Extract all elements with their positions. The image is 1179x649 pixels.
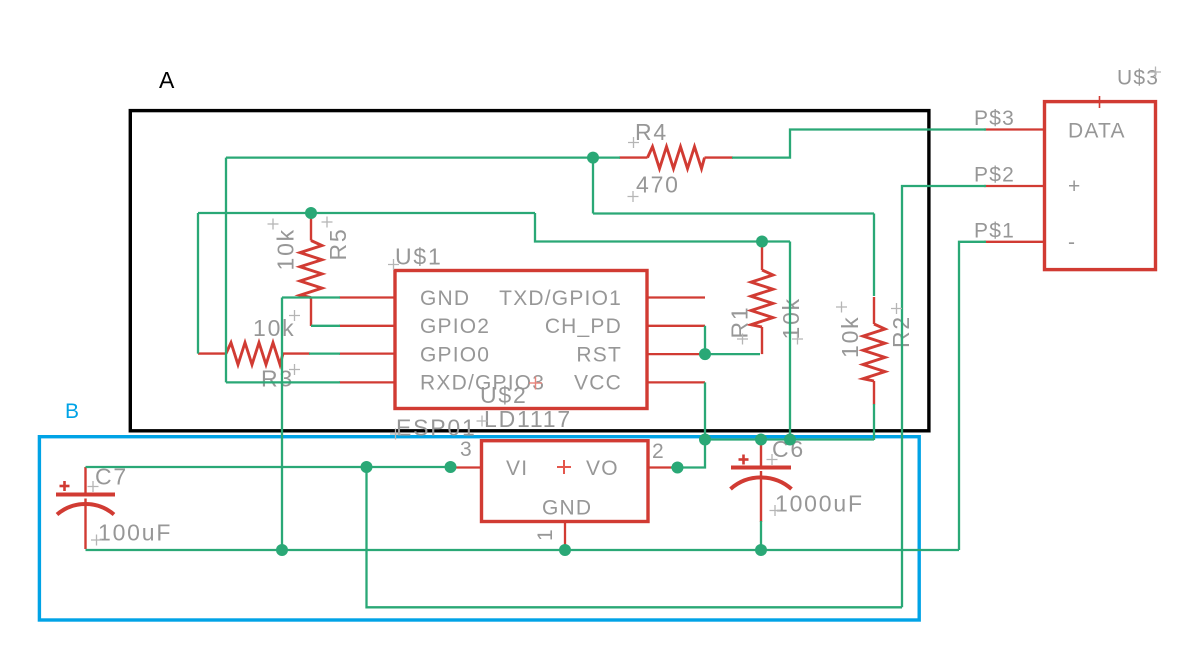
cross R3 name origin (289, 364, 300, 375)
cross C6 value origin (770, 505, 781, 516)
resistor R2 (863, 297, 885, 405)
wire R4 right to riser (732, 130, 986, 158)
svg-text:1: 1 (534, 528, 557, 541)
svg-text:P$1: P$1 (974, 220, 1015, 243)
svg-text:10k: 10k (253, 315, 295, 341)
wire VI input y=467 (86, 466, 454, 468)
U$3 pin P$3 stub (984, 128, 1045, 130)
cross R1 name origin (737, 334, 748, 345)
wire R2 bottom segment (873, 404, 875, 440)
svg-text:VO: VO (586, 457, 619, 480)
svg-text:3: 3 (460, 438, 473, 461)
cross C7 name origin (88, 481, 99, 492)
resistor R3 (198, 343, 310, 365)
wire 3.3V rail y=439.5 (705, 438, 874, 440)
wire GND drop x=282 (281, 298, 283, 551)
svg-text:TXD/GPIO1: TXD/GPIO1 (499, 287, 622, 310)
svg-text:R5: R5 (325, 227, 351, 260)
svg-text:GND: GND (420, 287, 470, 310)
wire CH_PD drop (704, 326, 706, 354)
wire RXD/GPIO3 row (226, 381, 340, 383)
wire GPIO2 row (311, 325, 340, 327)
cross R4 name origin (628, 137, 639, 148)
U$1 pin TXD/GPIO1 stub (647, 296, 705, 298)
cross R4 value origin (628, 191, 639, 202)
svg-text:ESP01: ESP01 (396, 415, 477, 441)
svg-text:100uF: 100uF (98, 520, 172, 546)
junction VCC rail at C6 (755, 434, 767, 446)
svg-text:1000uF: 1000uF (775, 491, 864, 517)
svg-text:470: 470 (636, 172, 680, 198)
junction VO pin node (672, 462, 684, 474)
C7 polarity plus mark (60, 481, 70, 491)
cross U$1 value origin (390, 429, 401, 440)
svg-text:R1: R1 (727, 305, 753, 338)
cross R1 value origin (792, 334, 803, 345)
svg-text:B: B (65, 400, 79, 423)
svg-text:10k: 10k (837, 316, 863, 358)
U$2 polarity plus mark (557, 460, 571, 474)
wire left drop x=198 to R3 (197, 213, 199, 354)
wire riser x=790 down to rail (789, 242, 791, 440)
text origin crosses (88, 67, 1162, 546)
junction GND rail at C6 (755, 544, 767, 556)
U$2 pin VI stub (pin 3) (452, 466, 482, 468)
wire GND row U$1 (282, 296, 340, 298)
U$3 top origin tick (1099, 96, 1101, 108)
svg-text:-: - (1068, 231, 1076, 254)
voltage regulator U$2 LD1117 body (482, 441, 649, 522)
U$1 pin RXD/GPIO3 stub (339, 381, 395, 383)
cross R5 name origin (322, 217, 333, 228)
cross C7 value origin (91, 535, 102, 546)
wire GPIO0 row (309, 352, 340, 354)
U$1 pin GPIO0 stub (339, 352, 395, 354)
svg-text:U$2: U$2 (480, 382, 528, 408)
junction R5 top node (305, 207, 317, 219)
wire U$2 GND pin to rail (564, 545, 566, 550)
svg-text:CH_PD: CH_PD (545, 315, 622, 338)
U$3 pin P$2 stub (984, 185, 1045, 187)
wire y=213.5 to R2 column (593, 212, 874, 214)
wire C6 bottom to rail (760, 521, 762, 550)
cross U$3 name origin (1150, 67, 1161, 78)
svg-text:GPIO0: GPIO0 (420, 343, 490, 366)
svg-text:DATA: DATA (1068, 120, 1126, 143)
cross C6 name origin (767, 454, 778, 465)
cross R3 value origin (289, 310, 300, 321)
resistor R1 (751, 244, 773, 354)
svg-text:VI: VI (506, 457, 528, 480)
svg-text:U$3: U$3 (1117, 67, 1159, 90)
U$2 pin VO stub (pin 2) (648, 466, 676, 468)
cross R5 value origin (268, 219, 279, 230)
connector U$3 body (1045, 102, 1156, 270)
wire RST row (705, 353, 760, 355)
svg-text:+: + (1068, 175, 1081, 198)
capacitor C7 (56, 467, 115, 549)
svg-text:RST: RST (576, 343, 622, 366)
wire data net y=158 (226, 156, 620, 158)
junction VI wire at x=366.5 (361, 461, 373, 473)
wire VCC drop x=705 (704, 382, 706, 439)
wire drop x=593 from data junction (592, 158, 594, 214)
svg-text:GND: GND (542, 497, 592, 520)
svg-text:R4: R4 (635, 119, 668, 145)
U$1 pin CH_PD stub (647, 325, 705, 327)
wire GND riser x=959 to P$1 (959, 242, 986, 550)
junction GND rail at x=282 (276, 544, 288, 556)
U$1 pin GND stub (339, 296, 395, 298)
wire VO to rail (671, 440, 705, 468)
junction VCC rail at x=705 (699, 434, 711, 446)
svg-text:LD1117: LD1117 (484, 406, 572, 432)
junction VCC rail at x=790 (784, 434, 796, 446)
U$1 pin RST stub (647, 353, 701, 355)
wire GND rail y=550 (86, 549, 960, 551)
junction R1 top node (756, 236, 768, 248)
cross R2 name origin (891, 303, 902, 314)
svg-text:GPIO2: GPIO2 (420, 315, 490, 338)
wire 5V riser x=903 to P$2 (902, 186, 986, 607)
wire drop x=226 to RXD/GPIO3 (225, 158, 227, 383)
ESP01 module U$1 body (395, 271, 647, 409)
C6 polarity plus mark (739, 455, 749, 465)
junction VI pin node (445, 461, 457, 473)
U$1 pin VCC stub (647, 381, 705, 383)
junction data/R4 node (587, 152, 599, 164)
svg-text:A: A (159, 67, 175, 93)
U$2 origin cross (529, 377, 542, 390)
resistor R5 (300, 216, 322, 326)
svg-text:P$2: P$2 (974, 164, 1015, 187)
junction GND rail at U$2 pin 1 (559, 544, 571, 556)
svg-text:10k: 10k (273, 228, 299, 270)
cross U$1 name origin (388, 259, 399, 270)
svg-text:U$1: U$1 (395, 244, 443, 270)
frame A (black group box) (130, 111, 929, 431)
wire 5V drop x=366.5 (367, 467, 903, 607)
U$3 pin P$1 stub (984, 241, 1045, 243)
U$2 pin GND stub (pin 1) (564, 522, 566, 547)
wire R2 top segment (873, 214, 875, 297)
cross R2 value origin (836, 302, 847, 313)
svg-text:VCC: VCC (574, 372, 622, 395)
resistor R4 (619, 147, 733, 169)
cross U$2 value origin (477, 416, 488, 427)
capacitor C6 (731, 442, 792, 522)
junction RST node (699, 348, 711, 360)
wire step down at x=535 (535, 213, 790, 242)
U$1 pin GPIO2 stub (339, 325, 395, 327)
svg-text:2: 2 (652, 440, 665, 463)
svg-text:P$3: P$3 (974, 107, 1015, 130)
frame B (cyan group box) (39, 437, 919, 620)
wire net N$1 horizontal y=213 (198, 212, 535, 214)
